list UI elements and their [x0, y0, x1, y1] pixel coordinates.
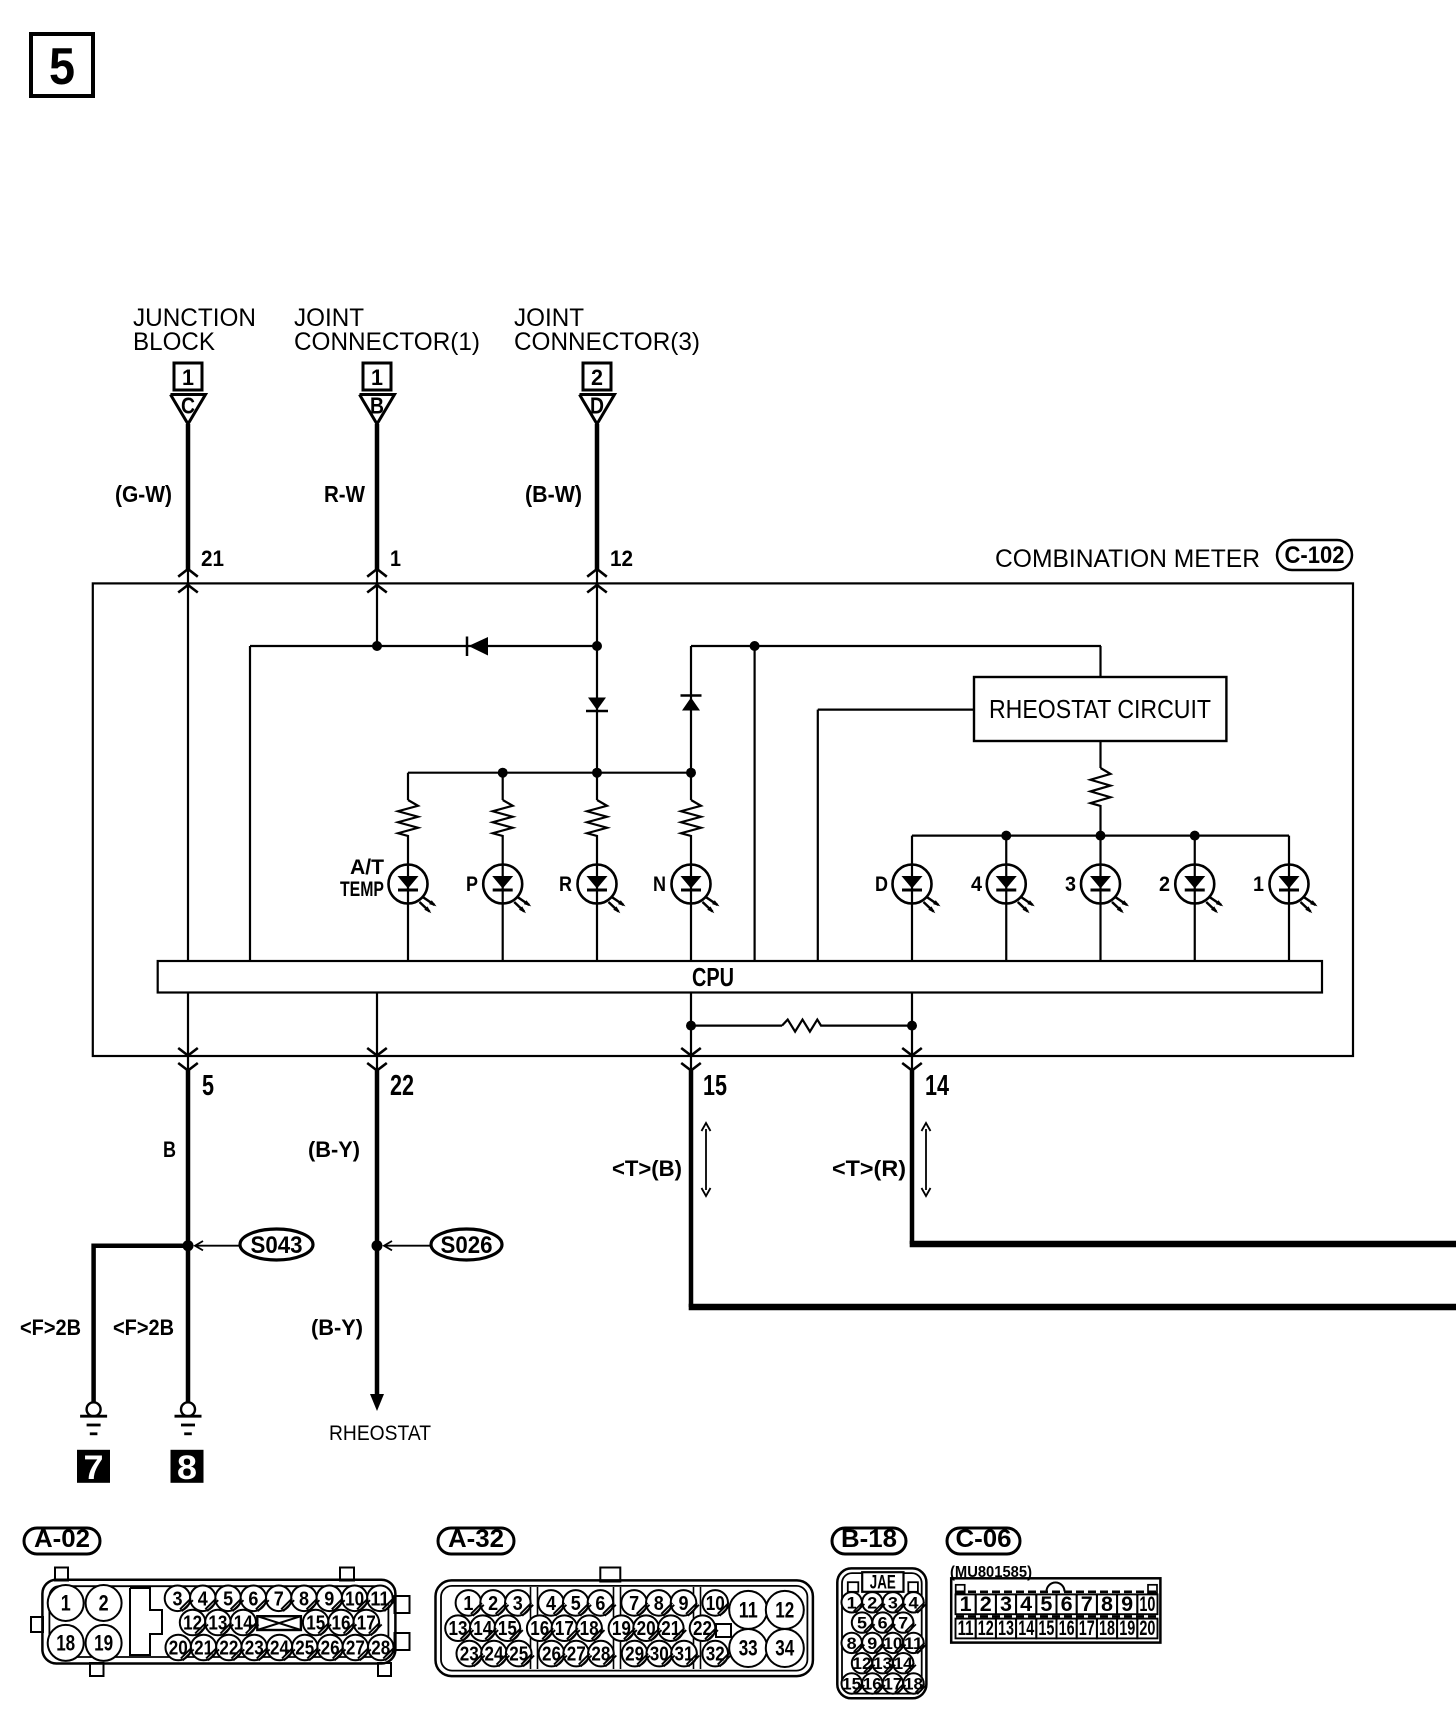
- svg-text:S043: S043: [251, 1232, 303, 1259]
- svg-text:2: 2: [591, 365, 603, 390]
- svg-text:C-06: C-06: [956, 1525, 1012, 1553]
- svg-text:20: 20: [637, 1618, 656, 1640]
- svg-text:10: 10: [1139, 1593, 1155, 1616]
- svg-text:5: 5: [202, 1070, 214, 1102]
- svg-text:1: 1: [61, 1591, 71, 1616]
- svg-text:30: 30: [650, 1644, 669, 1666]
- svg-text:R-W: R-W: [324, 481, 365, 507]
- svg-text:6: 6: [1061, 1593, 1073, 1616]
- svg-text:19: 19: [94, 1631, 113, 1656]
- svg-text:17: 17: [555, 1618, 574, 1640]
- svg-text:N: N: [653, 873, 666, 896]
- svg-text:3: 3: [1000, 1593, 1012, 1616]
- svg-text:11: 11: [739, 1598, 758, 1623]
- svg-text:B-18: B-18: [841, 1525, 897, 1553]
- svg-text:<T>(R): <T>(R): [832, 1156, 906, 1181]
- svg-text:(B-Y): (B-Y): [308, 1137, 360, 1162]
- svg-text:1: 1: [371, 365, 383, 390]
- svg-text:10: 10: [706, 1593, 725, 1615]
- svg-text:2: 2: [99, 1591, 109, 1616]
- svg-text:CONNECTOR(3): CONNECTOR(3): [514, 328, 700, 356]
- svg-text:15: 15: [306, 1613, 325, 1635]
- svg-text:21: 21: [661, 1618, 680, 1640]
- svg-text:16: 16: [1059, 1617, 1075, 1640]
- svg-text:(G-W): (G-W): [115, 481, 172, 507]
- svg-text:<F>2B: <F>2B: [113, 1315, 174, 1340]
- svg-text:R: R: [559, 873, 572, 896]
- svg-text:11: 11: [958, 1617, 974, 1640]
- svg-text:22: 22: [693, 1618, 712, 1640]
- svg-text:A-02: A-02: [34, 1525, 90, 1553]
- svg-text:(B-W): (B-W): [525, 481, 582, 507]
- svg-text:19: 19: [1119, 1617, 1135, 1640]
- svg-text:27: 27: [346, 1638, 365, 1660]
- svg-text:12: 12: [775, 1598, 794, 1623]
- svg-text:7: 7: [1081, 1593, 1093, 1616]
- svg-text:P: P: [466, 873, 478, 896]
- svg-text:19: 19: [612, 1618, 631, 1640]
- svg-text:12: 12: [183, 1613, 202, 1635]
- svg-text:12: 12: [978, 1617, 994, 1640]
- svg-text:B: B: [370, 393, 384, 419]
- svg-text:A-32: A-32: [448, 1525, 504, 1553]
- svg-text:C: C: [181, 393, 195, 419]
- svg-text:17: 17: [1079, 1617, 1095, 1640]
- svg-text:D: D: [590, 393, 604, 419]
- svg-text:9: 9: [1121, 1593, 1133, 1616]
- svg-text:20: 20: [1139, 1617, 1155, 1640]
- svg-text:CONNECTOR(1): CONNECTOR(1): [294, 328, 480, 356]
- svg-text:2: 2: [980, 1593, 992, 1616]
- svg-text:21: 21: [201, 546, 224, 571]
- svg-text:<F>2B: <F>2B: [20, 1315, 81, 1340]
- svg-text:29: 29: [625, 1644, 644, 1666]
- svg-text:8: 8: [1101, 1593, 1113, 1616]
- svg-text:18: 18: [1099, 1617, 1115, 1640]
- svg-text:2: 2: [1159, 873, 1170, 896]
- svg-text:4: 4: [971, 873, 982, 896]
- svg-text:16: 16: [530, 1618, 549, 1640]
- svg-text:23: 23: [460, 1644, 479, 1666]
- svg-text:14: 14: [1018, 1617, 1034, 1640]
- svg-text:25: 25: [295, 1638, 314, 1660]
- svg-text:32: 32: [706, 1644, 725, 1666]
- svg-text:16: 16: [332, 1613, 351, 1635]
- svg-text:13: 13: [449, 1618, 468, 1640]
- svg-text:13: 13: [998, 1617, 1014, 1640]
- svg-text:TEMP: TEMP: [340, 878, 384, 901]
- svg-text:18: 18: [580, 1618, 599, 1640]
- svg-text:1: 1: [390, 546, 401, 571]
- svg-text:27: 27: [567, 1644, 586, 1666]
- svg-text:C-102: C-102: [1285, 542, 1345, 569]
- svg-text:JAE: JAE: [870, 1573, 896, 1594]
- svg-text:26: 26: [321, 1638, 340, 1660]
- svg-text:10: 10: [345, 1588, 364, 1610]
- svg-text:33: 33: [739, 1636, 758, 1661]
- svg-text:S026: S026: [441, 1232, 493, 1259]
- svg-text:15: 15: [1038, 1617, 1054, 1640]
- svg-text:26: 26: [542, 1644, 561, 1666]
- svg-text:3: 3: [1065, 873, 1076, 896]
- svg-text:14: 14: [925, 1070, 949, 1102]
- svg-text:(B-Y): (B-Y): [311, 1315, 363, 1340]
- svg-text:21: 21: [194, 1638, 213, 1660]
- svg-text:11: 11: [370, 1588, 389, 1610]
- svg-text:25: 25: [509, 1644, 528, 1666]
- svg-text:15: 15: [703, 1070, 727, 1102]
- svg-text:RHEOSTAT: RHEOSTAT: [329, 1422, 431, 1445]
- svg-text:7: 7: [84, 1449, 104, 1487]
- svg-text:17: 17: [357, 1613, 376, 1635]
- svg-text:13: 13: [208, 1613, 227, 1635]
- svg-text:12: 12: [610, 546, 633, 571]
- svg-text:28: 28: [591, 1644, 610, 1666]
- svg-text:23: 23: [245, 1638, 264, 1660]
- svg-text:31: 31: [675, 1644, 694, 1666]
- svg-text:15: 15: [498, 1618, 517, 1640]
- svg-text:8: 8: [177, 1449, 197, 1487]
- svg-text:34: 34: [775, 1636, 795, 1661]
- svg-text:RHEOSTAT CIRCUIT: RHEOSTAT CIRCUIT: [989, 694, 1211, 724]
- svg-text:<T>(B): <T>(B): [612, 1156, 682, 1181]
- svg-text:D: D: [875, 873, 888, 896]
- svg-text:28: 28: [371, 1638, 390, 1660]
- svg-text:CPU: CPU: [692, 962, 734, 992]
- svg-text:BLOCK: BLOCK: [133, 328, 215, 356]
- svg-text:A/T: A/T: [350, 856, 384, 879]
- svg-text:20: 20: [169, 1638, 188, 1660]
- svg-text:18: 18: [56, 1631, 75, 1656]
- svg-text:1: 1: [182, 365, 194, 390]
- svg-text:1: 1: [960, 1593, 972, 1616]
- svg-text:22: 22: [219, 1638, 238, 1660]
- svg-text:5: 5: [49, 38, 75, 96]
- svg-text:5: 5: [1040, 1593, 1052, 1616]
- svg-text:4: 4: [1020, 1593, 1032, 1616]
- svg-text:COMBINATION METER: COMBINATION METER: [995, 545, 1260, 573]
- svg-text:1: 1: [1253, 873, 1264, 896]
- svg-text:B: B: [163, 1137, 176, 1162]
- svg-text:22: 22: [390, 1070, 414, 1102]
